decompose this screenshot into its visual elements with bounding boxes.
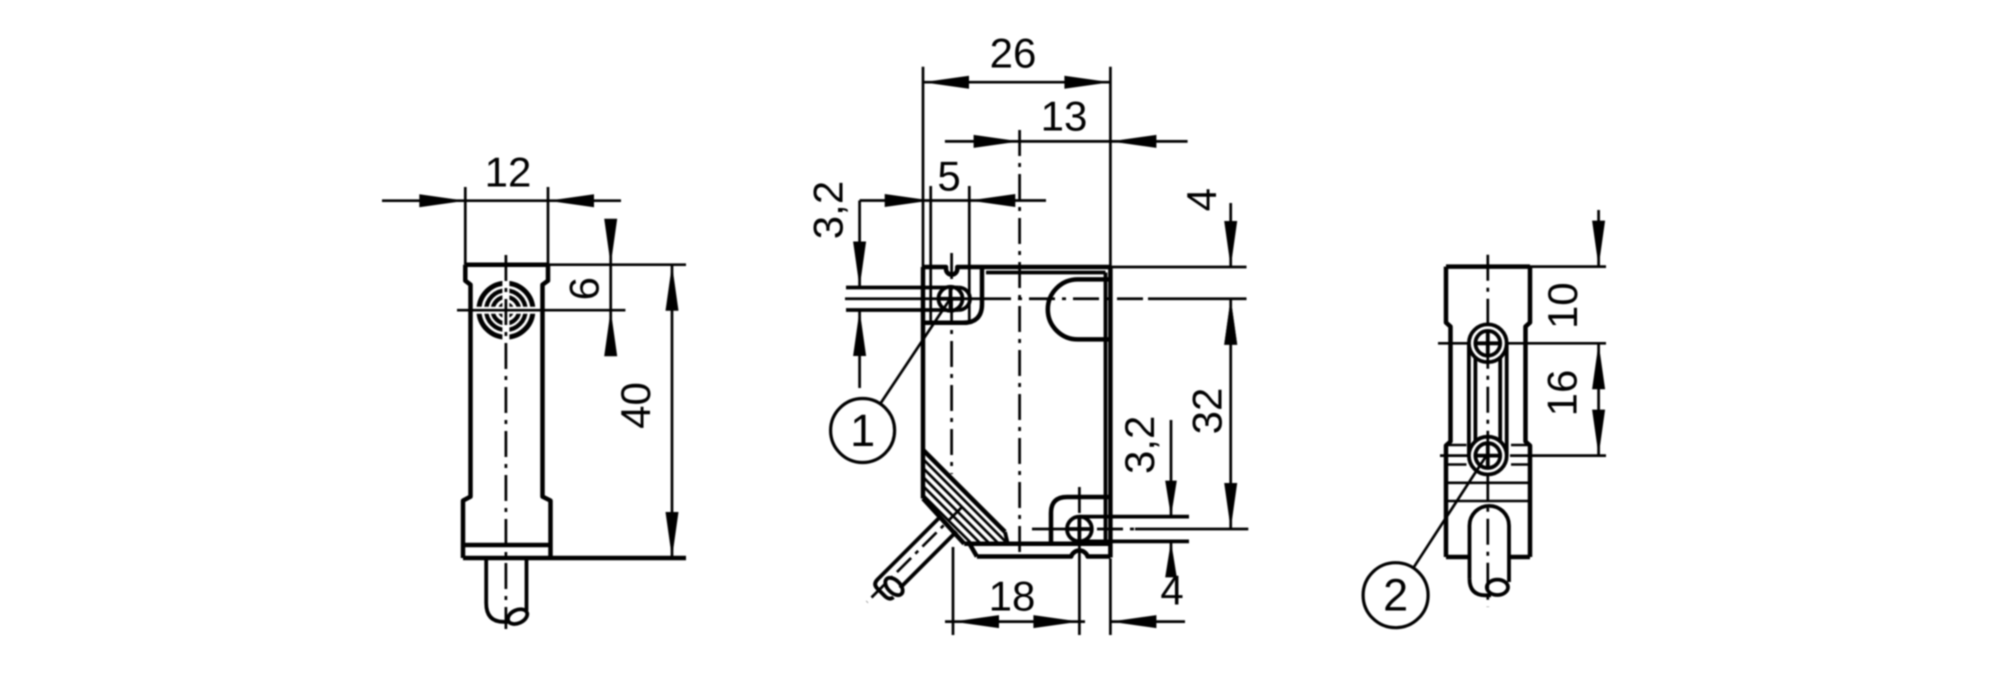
svg-text:32: 32	[1184, 388, 1231, 435]
svg-text:16: 16	[1539, 370, 1586, 417]
svg-text:12: 12	[485, 149, 532, 196]
svg-text:2: 2	[1383, 570, 1408, 621]
svg-text:3,2: 3,2	[805, 181, 852, 239]
svg-text:26: 26	[990, 30, 1037, 77]
svg-text:18: 18	[989, 573, 1036, 620]
svg-text:3,2: 3,2	[1116, 416, 1163, 474]
svg-text:6: 6	[561, 277, 608, 300]
svg-text:4: 4	[1160, 567, 1183, 614]
svg-text:5: 5	[937, 153, 960, 200]
svg-text:10: 10	[1539, 282, 1586, 329]
svg-text:4: 4	[1178, 188, 1225, 211]
svg-text:1: 1	[850, 405, 875, 456]
svg-text:40: 40	[612, 382, 659, 429]
svg-text:13: 13	[1041, 93, 1088, 140]
